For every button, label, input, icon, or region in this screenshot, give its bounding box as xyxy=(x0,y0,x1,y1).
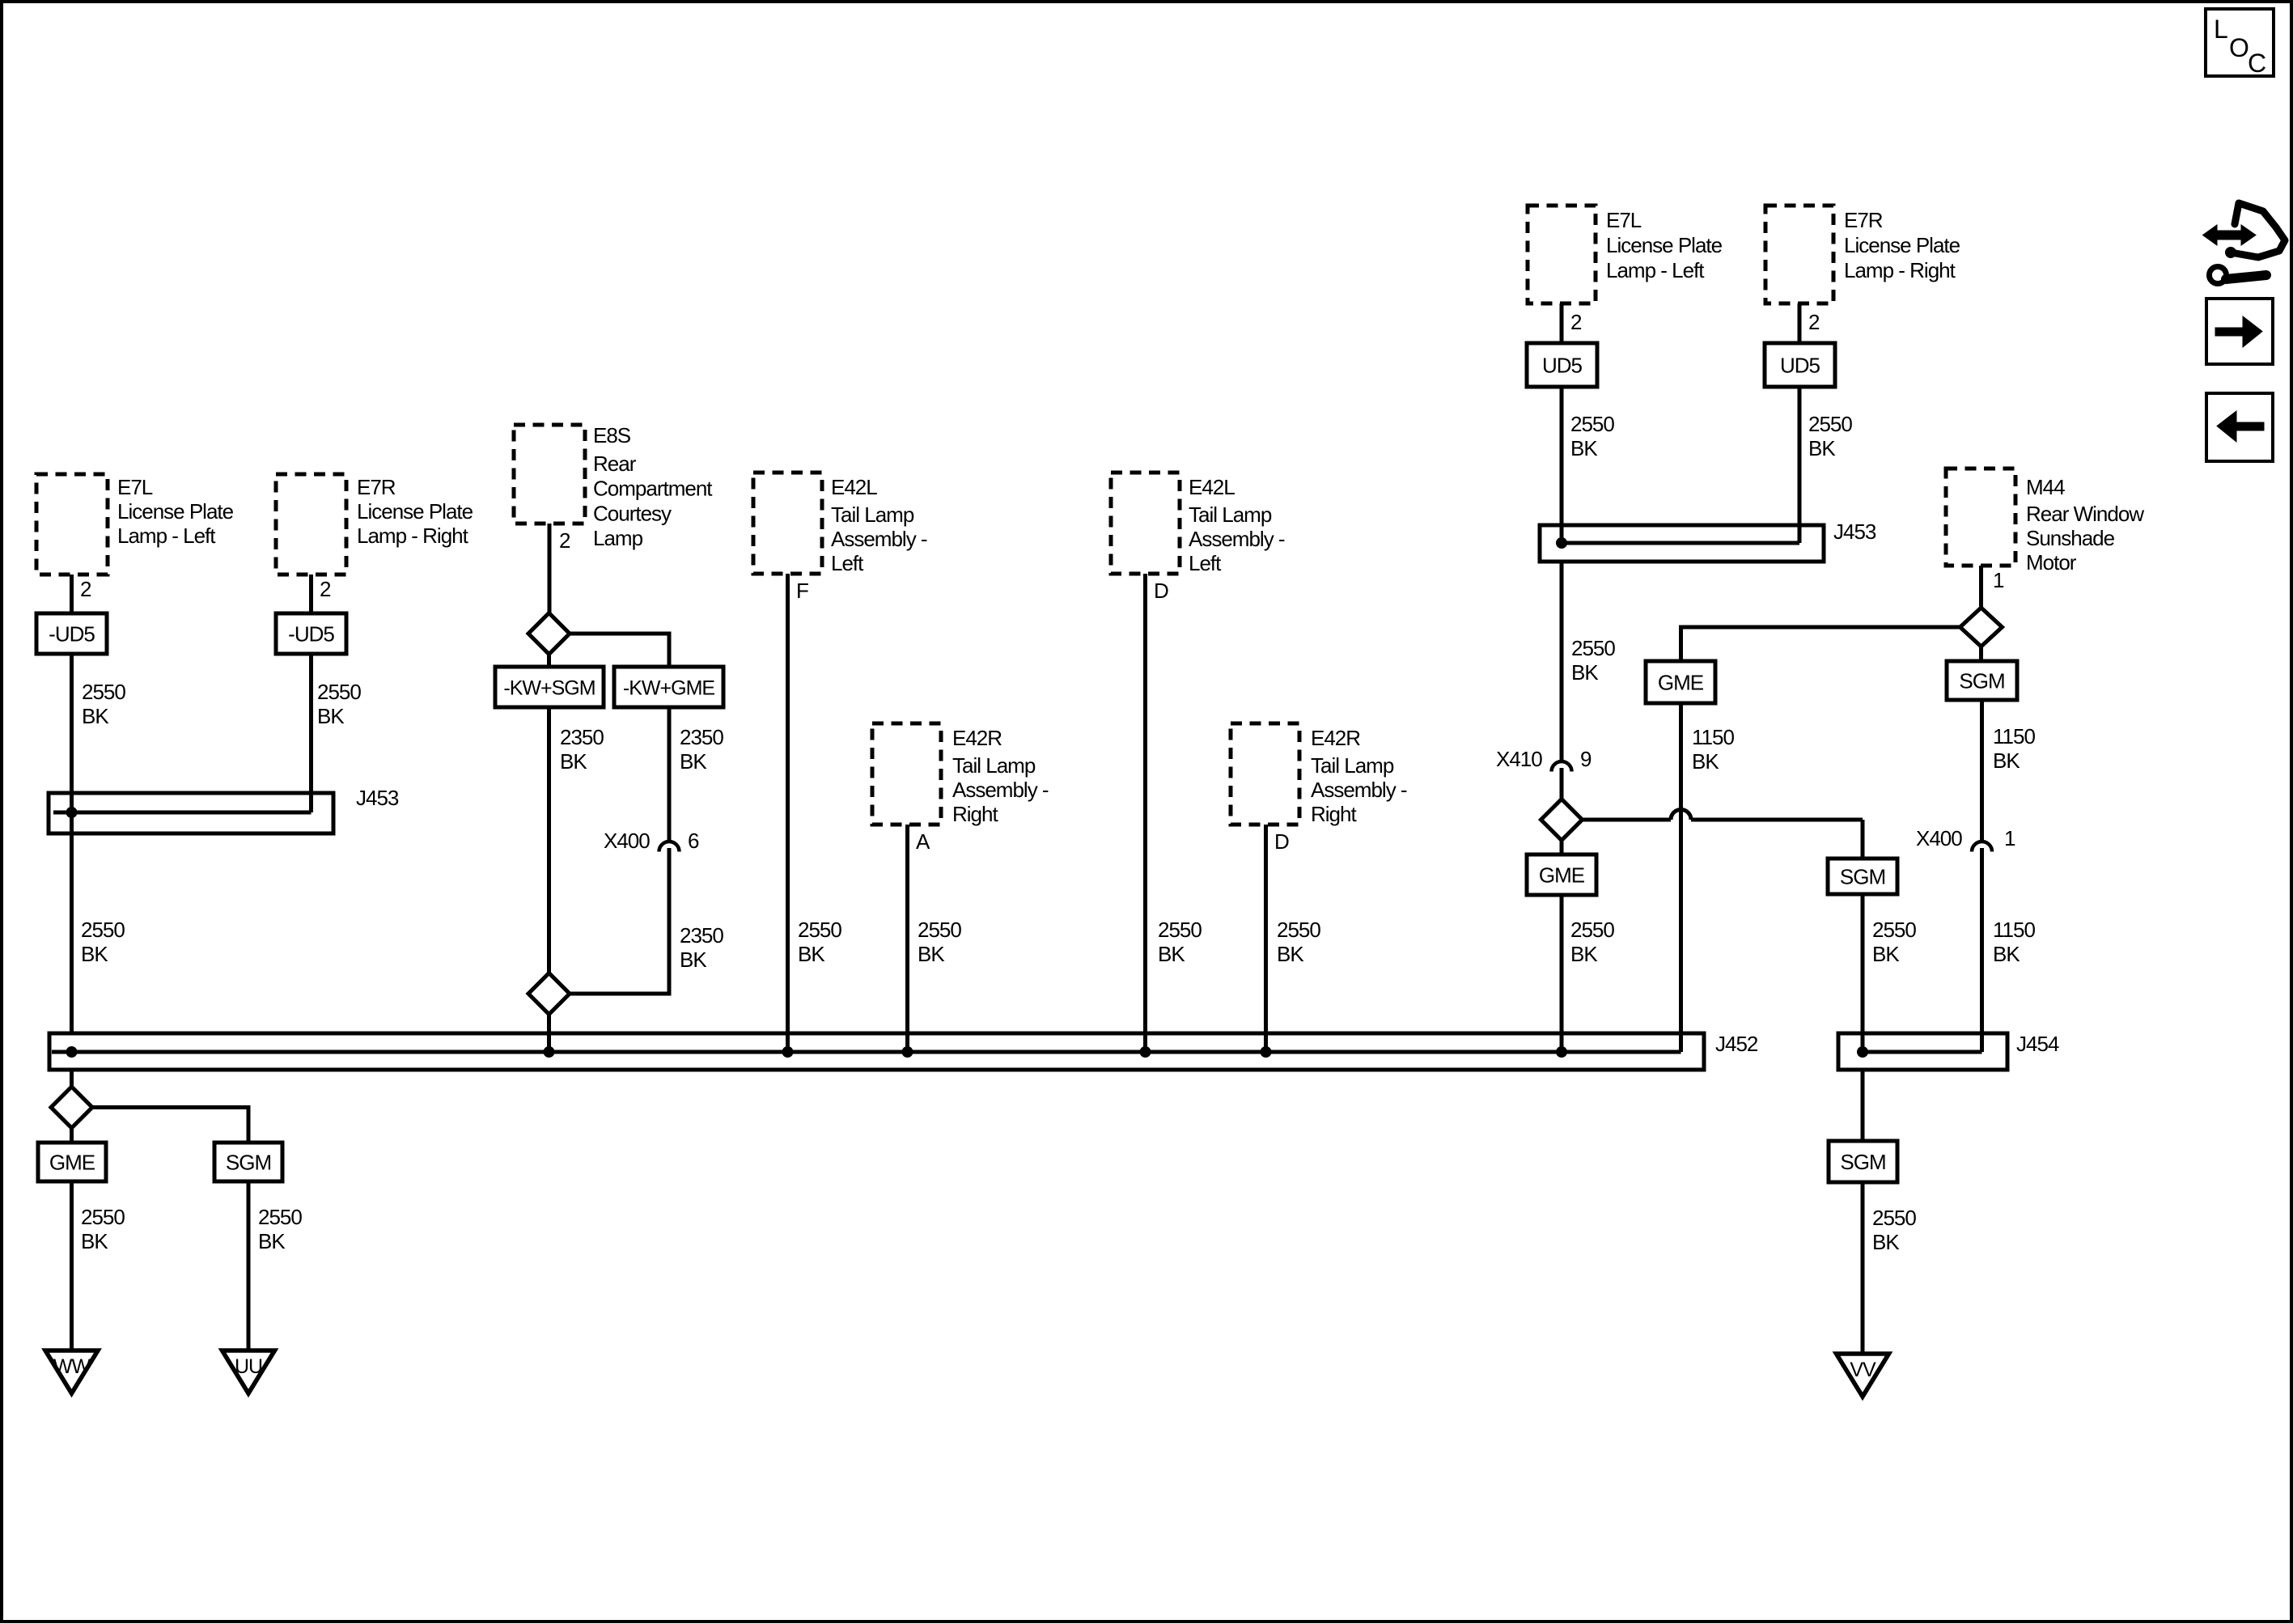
svg-text:6: 6 xyxy=(688,829,699,853)
junction dot on J454 bus xyxy=(1857,1046,1868,1058)
svg-text:SGM: SGM xyxy=(1840,865,1885,889)
svg-text:SGM: SGM xyxy=(1840,1150,1885,1174)
label 2550 BK xyxy=(1872,918,1916,966)
component E7L License Plate Lamp - Left (left group) xyxy=(36,474,108,575)
label E7R License Plate Lamp - Right xyxy=(1844,208,1960,282)
svg-text:BK: BK xyxy=(560,749,587,774)
svg-text:2550: 2550 xyxy=(918,918,961,942)
label 2550 BK xyxy=(81,918,125,966)
pin D of E42R xyxy=(1274,829,1289,854)
wire diamond to splice J452 xyxy=(547,1013,551,1052)
junction dots on J452 bus xyxy=(66,1046,1568,1058)
svg-text:Lamp - Left: Lamp - Left xyxy=(117,524,216,548)
wire branch diamond to -KW+GME xyxy=(570,634,670,667)
component E42R Tail Lamp Assembly - Right (pin A) xyxy=(872,723,941,825)
wire 2550 BK from -UD5 to splice J453 xyxy=(70,654,74,793)
label 2550 BK xyxy=(1570,918,1614,966)
svg-text:BK: BK xyxy=(1808,436,1836,460)
component E7R License Plate Lamp - Right (left group) xyxy=(276,474,346,575)
label 1150 BK xyxy=(1993,724,2035,773)
svg-text:D: D xyxy=(1274,829,1289,854)
svg-text:GME: GME xyxy=(1539,863,1585,888)
svg-text:2550: 2550 xyxy=(81,918,125,942)
svg-text:2550: 2550 xyxy=(1570,918,1614,942)
svg-text:Sunshade: Sunshade xyxy=(2026,526,2115,550)
wire diamond to -KW+SGM xyxy=(547,653,551,667)
svg-text:1150: 1150 xyxy=(1993,918,2035,942)
trip code -UD5 (left) xyxy=(36,613,107,654)
svg-text:Lamp - Right: Lamp - Right xyxy=(357,524,469,548)
svg-text:SGM: SGM xyxy=(226,1151,271,1175)
svg-text:BK: BK xyxy=(258,1229,286,1253)
LOC reference box icon xyxy=(2206,9,2274,78)
harness squiggle icon with double arrow xyxy=(2203,203,2286,284)
svg-text:BK: BK xyxy=(680,749,707,774)
svg-text:BK: BK xyxy=(317,704,345,728)
svg-text:2550: 2550 xyxy=(81,1205,125,1229)
trip code -KW+SGM xyxy=(495,667,604,707)
svg-text:BK: BK xyxy=(81,1229,108,1253)
wire 2550 BK UD5 to splice J453 xyxy=(1560,387,1564,543)
label E8S Rear Compartment Courtesy Lamp xyxy=(593,423,713,550)
pin F of E42L xyxy=(796,579,808,603)
wire 2550 BK E42L-F to J452 xyxy=(786,574,790,1052)
svg-text:J453: J453 xyxy=(1833,519,1876,544)
wire diamond to GME trip box xyxy=(1560,839,1564,854)
label 2550 BK xyxy=(918,918,961,966)
wire M44 pin 1 to splice diamond xyxy=(1979,566,1983,608)
svg-text:Rear Window: Rear Window xyxy=(2026,502,2144,526)
svg-text:Tail Lamp: Tail Lamp xyxy=(831,502,914,527)
svg-text:Tail Lamp: Tail Lamp xyxy=(1189,502,1272,527)
component M44 Rear Window Sunshade Motor xyxy=(1946,469,2015,566)
wire 2550 BK GME to ground WW xyxy=(70,1181,74,1351)
wire E7R pin 2 to UD5 xyxy=(1798,303,1802,343)
label 2550 BK xyxy=(81,1205,125,1253)
svg-text:2350: 2350 xyxy=(680,725,723,749)
splice J453 (left) xyxy=(49,793,333,833)
wire 2550 BK SGM to splice J454 xyxy=(1861,894,1865,1052)
splice pack J452 xyxy=(49,1033,1704,1070)
wire E8S pin 2 down to splice diamond xyxy=(548,524,552,614)
inline connector X400 cavity 6 xyxy=(659,842,680,852)
svg-text:X400: X400 xyxy=(604,829,650,853)
svg-text:E42R: E42R xyxy=(1311,726,1360,750)
trip code SGM (upper right) xyxy=(1947,661,2017,700)
label 2350 BK xyxy=(680,725,723,774)
trip code UD5 (left) xyxy=(1527,343,1597,387)
pin 2 of E7R xyxy=(320,577,331,601)
wire branch diamond left to GME trip box xyxy=(1681,627,1960,661)
svg-text:Lamp - Right: Lamp - Right xyxy=(1844,258,1956,282)
svg-text:A: A xyxy=(916,829,930,854)
trip code SGM (bottom left) xyxy=(214,1143,282,1181)
svg-text:1150: 1150 xyxy=(1993,724,2035,748)
svg-text:2550: 2550 xyxy=(317,680,361,704)
svg-text:E42L: E42L xyxy=(831,475,877,499)
svg-text:Lamp: Lamp xyxy=(593,526,643,550)
svg-text:SGM: SGM xyxy=(1959,669,2004,693)
wire E7L pin 2 to -UD5 xyxy=(70,575,74,613)
splice pack J454 xyxy=(1838,1033,2007,1070)
svg-text:2: 2 xyxy=(1808,310,1820,334)
svg-text:BK: BK xyxy=(1158,942,1185,966)
svg-text:BK: BK xyxy=(1993,942,2020,966)
svg-text:BK: BK xyxy=(1571,660,1599,685)
label E7L License Plate Lamp - Left xyxy=(1606,208,1723,282)
trip code UD5 (right) xyxy=(1765,343,1835,387)
label E7R License Plate Lamp - Right xyxy=(357,475,473,548)
svg-text:License Plate: License Plate xyxy=(117,499,234,524)
svg-text:BK: BK xyxy=(1993,748,2020,773)
svg-text:E7L: E7L xyxy=(117,475,153,499)
label cavity 6 xyxy=(688,829,699,853)
label J453 xyxy=(356,786,399,810)
wire branch diamond to SGM with hop over 1150 wire xyxy=(1582,820,1863,859)
label 2550 BK xyxy=(317,680,361,728)
label cavity 1 xyxy=(2004,826,2015,850)
trip code -UD5 (right) xyxy=(276,613,346,654)
svg-text:M44: M44 xyxy=(2026,475,2065,499)
junction dot J453 left xyxy=(66,807,78,818)
wire J454 to SGM trip box (bottom right) xyxy=(1861,1070,1865,1141)
next-page right arrow icon xyxy=(2206,299,2273,364)
svg-text:BK: BK xyxy=(1277,942,1304,966)
svg-text:Right: Right xyxy=(952,802,998,826)
label J454 xyxy=(2016,1032,2059,1056)
label M44 Rear Window Sunshade Motor xyxy=(2026,475,2144,575)
svg-text:2350: 2350 xyxy=(560,725,604,749)
off-page triangle UU xyxy=(223,1351,275,1393)
label J452 xyxy=(1715,1032,1758,1056)
wire E7R pin 2 to -UD5 xyxy=(309,575,313,613)
svg-text:2550: 2550 xyxy=(258,1205,302,1229)
label 2350 BK xyxy=(560,725,604,774)
label 2550 BK xyxy=(1570,412,1614,460)
svg-text:2550: 2550 xyxy=(1872,918,1916,942)
svg-text:L: L xyxy=(2214,15,2228,44)
wire 2550 BK from -UD5 to splice J453 xyxy=(309,654,313,812)
svg-text:-UD5: -UD5 xyxy=(288,622,334,647)
component E42L Tail Lamp Assembly - Left (pin F) xyxy=(753,473,822,574)
wire 2550 BK E42R-A to J452 xyxy=(905,825,909,1052)
pin D of E42L xyxy=(1154,579,1168,603)
svg-text:2: 2 xyxy=(80,577,91,601)
svg-text:E8S: E8S xyxy=(593,423,631,447)
splice diamond X410 xyxy=(1541,799,1583,841)
svg-text:2: 2 xyxy=(320,577,331,601)
svg-text:-KW+GME: -KW+GME xyxy=(623,677,714,700)
label 2550 BK xyxy=(1277,918,1320,966)
trip code SGM (bottom right) xyxy=(1829,1141,1897,1182)
wire diamond to GME trip box xyxy=(70,1127,74,1143)
wire diamond down to SGM trip box xyxy=(1979,647,1983,661)
pin 2 of E7L xyxy=(80,577,91,601)
label X410 xyxy=(1496,747,1542,771)
svg-text:VV: VV xyxy=(1850,1359,1876,1381)
inline connector X400 cavity 1 xyxy=(1972,842,1992,852)
label 1150 BK xyxy=(1993,918,2035,966)
svg-text:UU: UU xyxy=(235,1355,262,1378)
svg-text:BK: BK xyxy=(1872,942,1900,966)
svg-text:2550: 2550 xyxy=(1570,412,1614,436)
svg-text:X410: X410 xyxy=(1496,747,1542,771)
label 2550 BK xyxy=(1872,1206,1916,1254)
label X400 xyxy=(1916,826,1962,850)
pin 2 of E7L xyxy=(1570,310,1582,334)
svg-text:2550: 2550 xyxy=(798,918,841,942)
svg-text:Tail Lamp: Tail Lamp xyxy=(952,753,1036,778)
wire 2550 BK UD5 to splice J453 xyxy=(1798,387,1802,543)
svg-text:Compartment: Compartment xyxy=(593,477,713,501)
wire from X410 to splice diamond xyxy=(1560,768,1564,801)
svg-text:BK: BK xyxy=(680,948,707,972)
component E7R License Plate Lamp - Right (right group) xyxy=(1765,206,1833,303)
splice J453 (right) xyxy=(1540,525,1824,562)
svg-text:1150: 1150 xyxy=(1692,725,1734,749)
label 2350 BK xyxy=(680,923,723,972)
svg-text:Assembly -: Assembly - xyxy=(1189,527,1285,551)
svg-text:-KW+SGM: -KW+SGM xyxy=(503,677,595,700)
component E7L License Plate Lamp - Left (right group) xyxy=(1528,206,1596,303)
off-page triangle WW xyxy=(45,1351,98,1393)
wire 1150 BK GME down to J452 xyxy=(1679,703,1683,1052)
junction dot J453 right xyxy=(1556,537,1567,549)
wire J452 to splice diamond (ground branch) xyxy=(70,1070,74,1088)
svg-text:GME: GME xyxy=(49,1151,95,1175)
svg-text:2550: 2550 xyxy=(1872,1206,1916,1230)
splice diamond to J452 xyxy=(528,973,570,1015)
wire hop over vertical 1150 BK wire xyxy=(1671,810,1691,820)
wire 2550 BK GME to J452 xyxy=(1560,895,1564,1052)
svg-text:Assembly -: Assembly - xyxy=(952,778,1049,802)
wire 2550 BK SGM to ground UU xyxy=(247,1181,251,1351)
svg-text:2550: 2550 xyxy=(1277,918,1320,942)
trip code GME (below X410 diamond) xyxy=(1527,854,1596,895)
svg-text:BK: BK xyxy=(81,942,108,966)
label 2550 BK xyxy=(1808,412,1852,460)
svg-text:UD5: UD5 xyxy=(1542,354,1583,378)
label X400 xyxy=(604,829,650,853)
svg-text:Left: Left xyxy=(1189,551,1222,575)
wire 1150 BK from X400-1 to J454 xyxy=(1980,848,1984,1052)
wire 2550 BK SGM to ground VV xyxy=(1861,1182,1865,1354)
svg-text:2550: 2550 xyxy=(1808,412,1852,436)
label J453 xyxy=(1833,519,1876,544)
label 2550 BK xyxy=(798,918,841,966)
svg-text:BK: BK xyxy=(1570,436,1598,460)
wire 2350 BK from -KW+SGM down to lower diamond xyxy=(547,707,551,975)
svg-text:J453: J453 xyxy=(356,786,399,810)
pin 1 of M44 xyxy=(1993,568,2004,592)
inline connector X410 cavity 9 xyxy=(1552,761,1572,772)
svg-text:J454: J454 xyxy=(2016,1032,2059,1056)
pin A of E42R xyxy=(916,829,930,854)
wire branch diamond to SGM trip box xyxy=(92,1108,249,1143)
label E42L Tail Lamp Assembly - Left xyxy=(1189,475,1285,575)
svg-text:2550: 2550 xyxy=(1158,918,1202,942)
svg-text:E42R: E42R xyxy=(952,726,1002,750)
label 2550 BK xyxy=(82,680,125,728)
trip code -KW+GME xyxy=(614,667,723,707)
svg-text:2: 2 xyxy=(559,528,570,553)
label 2550 BK xyxy=(258,1205,302,1253)
label E7L License Plate Lamp - Left xyxy=(117,475,234,548)
wire E7L pin 2 to UD5 xyxy=(1560,303,1564,343)
splice diamond M44 xyxy=(1960,608,2003,647)
pin 2 of E8S xyxy=(559,528,570,553)
svg-text:BK: BK xyxy=(1570,942,1598,966)
svg-text:-UD5: -UD5 xyxy=(49,622,95,647)
svg-text:C: C xyxy=(2248,49,2266,78)
svg-text:J452: J452 xyxy=(1715,1032,1758,1056)
wire 2550 BK from J453 to J452 xyxy=(70,793,74,1033)
svg-text:2: 2 xyxy=(1570,310,1582,334)
svg-text:E7R: E7R xyxy=(1844,208,1883,232)
label E42L Tail Lamp Assembly - Left xyxy=(831,475,927,575)
trip code GME (bottom left) xyxy=(38,1143,106,1181)
svg-text:License Plate: License Plate xyxy=(1606,233,1723,257)
svg-text:Rear: Rear xyxy=(593,452,637,476)
svg-text:E7R: E7R xyxy=(357,475,396,499)
svg-text:UD5: UD5 xyxy=(1780,354,1820,378)
svg-text:BK: BK xyxy=(1872,1230,1900,1254)
svg-text:License Plate: License Plate xyxy=(357,499,473,524)
svg-text:Lamp - Left: Lamp - Left xyxy=(1606,258,1705,282)
svg-text:BK: BK xyxy=(798,942,825,966)
off-page triangle VV xyxy=(1837,1354,1889,1397)
wire 2550 BK from J453 to connector X410-9 xyxy=(1560,562,1564,763)
svg-text:9: 9 xyxy=(1580,747,1592,771)
svg-text:2550: 2550 xyxy=(1571,636,1615,660)
svg-text:BK: BK xyxy=(82,704,109,728)
svg-text:2350: 2350 xyxy=(680,923,723,948)
svg-text:2550: 2550 xyxy=(82,680,125,704)
pin 2 of E7R xyxy=(1808,310,1820,334)
label E42R Tail Lamp Assembly - Right xyxy=(1311,726,1407,826)
svg-text:GME: GME xyxy=(1658,671,1704,695)
trip code GME (upper right) xyxy=(1646,661,1715,703)
svg-text:Left: Left xyxy=(831,551,864,575)
svg-text:Courtesy: Courtesy xyxy=(593,501,672,525)
label 1150 BK xyxy=(1692,725,1734,774)
wire 1150 BK SGM to connector X400-1 xyxy=(1980,700,1984,843)
svg-text:Assembly -: Assembly - xyxy=(1311,778,1407,802)
wire 2350 BK from -KW+GME to connector X400-6 xyxy=(668,707,672,843)
svg-text:License Plate: License Plate xyxy=(1844,233,1960,257)
svg-text:E42L: E42L xyxy=(1189,475,1235,499)
svg-text:1: 1 xyxy=(2004,826,2015,850)
label cavity 9 xyxy=(1580,747,1592,771)
svg-text:WW: WW xyxy=(53,1355,91,1378)
svg-text:BK: BK xyxy=(1692,749,1719,774)
svg-text:E7L: E7L xyxy=(1606,208,1642,232)
component E42L Tail Lamp Assembly - Left (pin D) xyxy=(1111,473,1180,574)
wire 2550 BK E42R-D to J452 xyxy=(1264,825,1268,1052)
wire 2350 BK from X400-6 to lower diamond xyxy=(568,848,669,994)
svg-text:1: 1 xyxy=(1993,568,2004,592)
wire 2550 BK E42L-D to J452 xyxy=(1143,574,1147,1052)
svg-text:Right: Right xyxy=(1311,802,1357,826)
component E8S Rear Compartment Courtesy Lamp xyxy=(514,425,585,524)
svg-text:O: O xyxy=(2229,33,2249,62)
svg-text:Motor: Motor xyxy=(2026,550,2077,575)
svg-text:D: D xyxy=(1154,579,1168,603)
previous-page left arrow icon xyxy=(2206,393,2273,461)
svg-text:BK: BK xyxy=(918,942,945,966)
label 2550 BK xyxy=(1158,918,1202,966)
label 2550 BK xyxy=(1571,636,1615,685)
svg-text:F: F xyxy=(796,579,808,603)
label E42R Tail Lamp Assembly - Right xyxy=(952,726,1049,826)
svg-text:Tail Lamp: Tail Lamp xyxy=(1311,753,1394,778)
trip code SGM (middle right) xyxy=(1828,859,1897,894)
svg-text:X400: X400 xyxy=(1916,826,1962,850)
splice diamond E8S xyxy=(528,613,570,655)
svg-text:Assembly -: Assembly - xyxy=(831,527,927,551)
component E42R Tail Lamp Assembly - Right (pin D) xyxy=(1231,723,1299,825)
splice diamond left ground xyxy=(51,1087,92,1128)
